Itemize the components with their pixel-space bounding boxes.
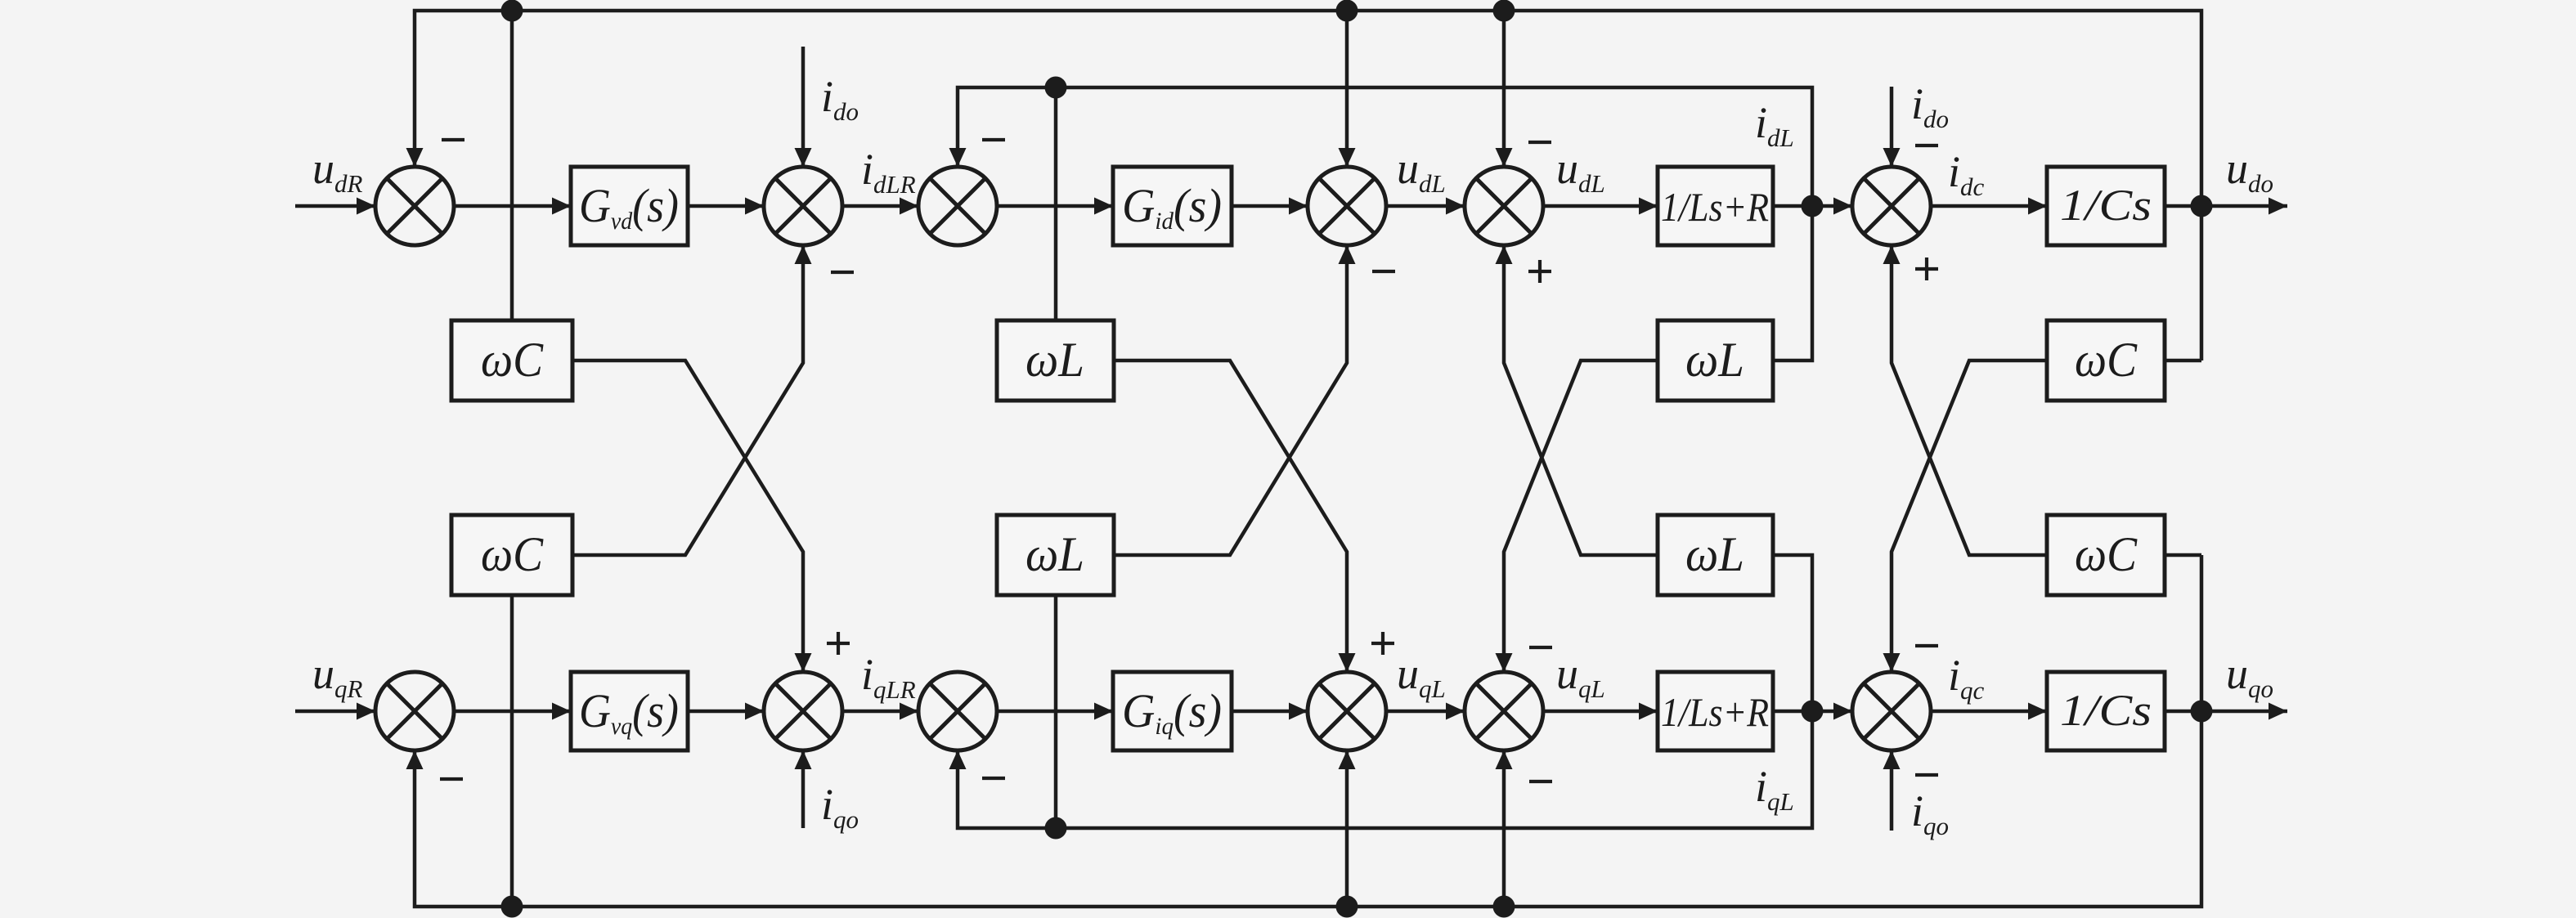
node: i_qL tap to lower mid omega-L [1045, 817, 1067, 840]
wire: S5 to plant block [1543, 204, 1658, 208]
sign + at S6 bottom input [1915, 267, 1938, 271]
summing junction S3q [918, 672, 997, 750]
sign + at S4q top input [1371, 642, 1394, 645]
node: top bus tap to upper omega-C block [501, 0, 523, 22]
arrowhead into S1q bottom [406, 750, 424, 769]
svg-text:ωC: ωC [481, 527, 544, 581]
arrowhead into S5q bottom [1496, 750, 1513, 769]
arrowhead into S5q top [1496, 653, 1513, 672]
arrowhead into S1q left [357, 703, 375, 720]
node: top bus tap above S5 [1493, 0, 1515, 22]
wire: i_dL down to upper mid omega-L input (crosses d row) [1054, 87, 1058, 320]
wire: top bus down to upper omega-C input (crosses d row) [510, 11, 514, 320]
wire: bottom bus up to lower omega-C input (crosses q row) [510, 595, 514, 907]
node: bottom bus tap below S4q [1336, 896, 1358, 918]
wire: u_qo up to lower right omega-C input [2165, 553, 2201, 558]
arrowhead into G_vd(s) [552, 198, 571, 215]
arrowhead u_qo output [2269, 703, 2287, 720]
wire: G_vd(s) to S2 [688, 204, 764, 208]
summing junction S6q [1852, 672, 1931, 750]
arrowhead into S4 top [1339, 148, 1356, 167]
summing junction S4 [1308, 167, 1386, 245]
block G_iq(s) [1113, 672, 1232, 750]
sign - at S1 top input [442, 138, 464, 141]
block G_vd(s) [571, 167, 688, 245]
arrowhead into 1/Cs (q) [2028, 703, 2047, 720]
block omega-L (upper mid) [997, 320, 1114, 401]
svg-text:ωL: ωL [1685, 527, 1744, 581]
summing junction S4q [1308, 672, 1386, 750]
block omega-L (lower right) [1658, 515, 1773, 595]
wire: plant output to S6q with i_qL tap [1773, 710, 1852, 714]
block 1/Ls+R (d axis) [1658, 167, 1773, 245]
svg-text:ωL: ωL [1025, 333, 1084, 387]
summing junction S3 [918, 167, 997, 245]
wire: upper right omega-C output cross-coupling down to S6q top [1892, 360, 2047, 672]
wire: i_do disturbance input into S2 top [801, 47, 806, 167]
wire: lower right omega-C output cross-coupling up to S6 bottom [1892, 245, 2047, 555]
block omega-L (upper right) [1658, 320, 1773, 401]
wire: lower omega-C output cross-coupling up to S2 bottom [572, 245, 803, 555]
arrowhead into S3q left [900, 703, 918, 720]
wire: top bus drop to summing junction S4 [1345, 11, 1349, 167]
svg-text:ωL: ωL [1685, 333, 1744, 387]
arrowhead u_do output [2269, 198, 2287, 215]
sign - at S6q top input [1915, 644, 1938, 647]
wire: S3 to G_id(s) [997, 204, 1113, 208]
arrowhead into S4q left [1289, 703, 1308, 720]
block G_id(s) [1113, 167, 1232, 245]
summing junction S2q [764, 672, 842, 750]
arrowhead into S6 bottom [1883, 245, 1901, 264]
wire: S2 to S3 [842, 204, 918, 208]
wire: S2q to S3q [842, 710, 918, 714]
svg-text:ωC: ωC [481, 333, 544, 387]
wire: S6q to 1/Cs (q) [1931, 710, 2047, 714]
node: i_dL tap after plant [1802, 195, 1824, 217]
block omega-C (upper right) [2047, 320, 2165, 401]
wire: S1q to G_vq(s) [454, 710, 571, 714]
svg-text:ωL: ωL [1025, 527, 1084, 581]
sign + at S5 bottom input [1528, 270, 1551, 273]
arrowhead into S4 bottom [1339, 245, 1356, 264]
wire: bottom bus rise to summing junction S5q [1502, 750, 1506, 907]
arrowhead into 1/Ls+R [1639, 198, 1658, 215]
summing junction S6 [1852, 167, 1931, 245]
wire: G_vq(s) to S2q [688, 710, 764, 714]
wire: i_qo disturbance input into S2q bottom [801, 750, 806, 828]
wire: upper omega-C output cross-coupling down to S2q top [572, 360, 803, 672]
node: i_dL tap to upper mid omega-L [1045, 77, 1067, 99]
summing junction S2 [764, 167, 842, 245]
sign - at S1q bottom input [440, 777, 463, 781]
arrowhead into S2 bottom [795, 245, 812, 264]
summing junction S5q [1465, 672, 1543, 750]
wire: S1 to G_vd(s) [454, 204, 571, 208]
node: i_qL tap after plant [1802, 701, 1824, 723]
block omega-C (lower right) [2047, 515, 2165, 595]
arrowhead into S5 top [1496, 148, 1513, 167]
wire: i_qo disturbance input into S6q bottom [1890, 750, 1894, 831]
arrowhead into S4q top [1339, 653, 1356, 672]
block 1/Cs (q axis) [2047, 672, 2165, 750]
node: top bus tap above S4 [1336, 0, 1358, 22]
wire: 1/Cs to u_qo output [2165, 710, 2287, 714]
arrowhead into S5 left [1446, 198, 1465, 215]
wire: i_do disturbance input into S6 top [1890, 87, 1894, 167]
block 1/Ls+R (q axis) [1658, 672, 1773, 750]
arrowhead into S3 left [900, 198, 918, 215]
wire: G_iq(s) to S4q [1232, 710, 1308, 714]
wire: bottom bus rise to summing junction S4q [1345, 750, 1349, 907]
wire: plant output to S6 with i_dL tap [1773, 204, 1852, 208]
svg-text:1/Ls+R: 1/Ls+R [1661, 184, 1769, 230]
wire: upper mid omega-L output cross-coupling down to S4q top [1114, 360, 1347, 672]
node: u_do output tap [2191, 195, 2213, 217]
wire: top bus drop to summing junction S5 [1502, 11, 1506, 167]
arrowhead into S3q bottom [949, 750, 967, 769]
svg-text:ωC: ωC [2075, 527, 2138, 581]
arrowhead into G_iq(s) [1094, 703, 1113, 720]
arrowhead into S6q bottom [1883, 750, 1901, 769]
arrowhead into S6q top [1883, 653, 1901, 672]
arrowhead into S5 bottom [1496, 245, 1513, 264]
arrowhead into 1/Ls+R (q) [1639, 703, 1658, 720]
wire: G_id(s) to S4 [1232, 204, 1308, 208]
arrowhead into S2 left [745, 198, 764, 215]
node: bottom bus tap to lower omega-C block [501, 896, 523, 918]
arrowhead into S6 left [1833, 198, 1852, 215]
arrowhead into S6 top [1883, 148, 1901, 167]
arrowhead into S4 left [1289, 198, 1308, 215]
arrowhead into S2q top [795, 653, 812, 672]
arrowhead into S2q bottom [795, 750, 812, 769]
arrowhead into S2 top [795, 148, 812, 167]
arrowhead into G_id(s) [1094, 198, 1113, 215]
sign - at S6q bottom input [1915, 773, 1938, 777]
sign - at S5q bottom input [1529, 780, 1552, 783]
wire: lower right omega-L output cross-coupling up to S5 bottom [1504, 245, 1658, 555]
block 1/Cs (d axis) [2047, 167, 2165, 245]
summing junction S5 [1465, 167, 1543, 245]
arrowhead into S1 left [357, 198, 375, 215]
wire: S4q to S5q [1386, 710, 1465, 714]
arrowhead into S2q left [745, 703, 764, 720]
arrowhead into S1 top [406, 148, 424, 167]
sign - at S3 top input [982, 138, 1005, 141]
svg-text:1/Ls+R: 1/Ls+R [1661, 689, 1769, 735]
summing junction S1 [375, 167, 454, 245]
arrowhead into S6q left [1833, 703, 1852, 720]
sign - at S3q bottom input [982, 777, 1005, 780]
block G_vq(s) [571, 672, 688, 750]
wire: i_qL feedback line to S3q [958, 555, 1812, 828]
arrowhead into 1/Cs [2028, 198, 2047, 215]
arrowhead into S4q bottom [1339, 750, 1356, 769]
svg-text:ωC: ωC [2075, 333, 2138, 387]
arrowhead into G_vq(s) [552, 703, 571, 720]
wire: lower mid omega-L output cross-coupling up to S4 bottom [1114, 245, 1347, 555]
block omega-C (upper left) [451, 320, 572, 401]
wire: u_dR input line [295, 204, 375, 208]
wire: S4 to S5 [1386, 204, 1465, 208]
svg-text:1/Cs: 1/Cs [2060, 181, 2152, 230]
summing junction S1q [375, 672, 454, 750]
sign - at S4 bottom input [1372, 270, 1395, 273]
wire: u_qR input line [295, 710, 375, 714]
wire: u_do feedback top bus [415, 11, 2201, 360]
wire: u_do down to upper right omega-C input [2165, 359, 2201, 363]
sign - at S6 top input [1915, 144, 1938, 147]
wire: upper right omega-L output cross-coupling down to S5q top [1504, 360, 1658, 672]
wire: S5q to plant block [1543, 710, 1658, 714]
arrowhead into S3 top [949, 148, 967, 167]
svg-text:1/Cs: 1/Cs [2060, 686, 2152, 735]
wire: S6 to 1/Cs [1931, 204, 2047, 208]
node: u_qo output tap [2191, 701, 2213, 723]
wire: S3q to G_iq(s) [997, 710, 1113, 714]
wire: i_dL feedback line to S3 [958, 87, 1812, 360]
block omega-C (lower left) [451, 515, 572, 595]
arrowhead into S5q left [1446, 703, 1465, 720]
block omega-L (lower mid) [997, 515, 1114, 595]
wire: 1/Cs to u_do output [2165, 204, 2287, 208]
sign - at S5q top input [1529, 646, 1552, 649]
sign + at S2q top input [827, 642, 850, 645]
node: bottom bus tap below S5q [1493, 896, 1515, 918]
wire: i_qL up to lower mid omega-L input (crosses q row) [1054, 595, 1058, 828]
sign - at S2 bottom input [831, 271, 854, 274]
wire: u_qo feedback bottom bus [415, 555, 2201, 907]
sign - at S5 top input [1528, 141, 1551, 144]
